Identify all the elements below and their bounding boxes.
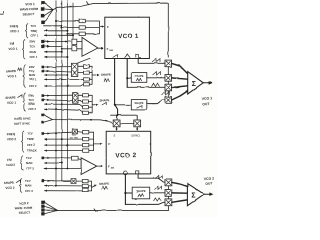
wire sync VCA link [120,122,134,124]
svg-text:VCO 2: VCO 2 [5,186,14,190]
wire to resistor R3 [67,33,80,35]
svg-text:VCO 2: VCO 2 [204,176,215,181]
wire bus 2 (vertical CV bus) [61,1,63,181]
svg-text:VCO 1: VCO 1 [10,29,20,33]
pin F VCO1 [107,25,109,29]
svg-text:TCV: TCV [25,179,31,183]
wire CFF2 row [45,84,84,87]
resistor R17 [83,149,89,152]
pin F VCO2 [108,142,110,146]
wire [77,131,82,134]
wire square to VCA1 [138,59,165,64]
VCA X9 hard sync [113,120,120,127]
label FREQ VCO 2 [7,132,17,141]
wire TIME row [44,30,68,32]
wire shape join VCO2 [88,181,97,191]
label CFF 2 [29,107,37,111]
label saw wave VCO2 [155,175,162,178]
wire [78,94,83,96]
wire CFF1 row [44,34,74,36]
node SHAPE VCO2 [99,182,109,190]
resistor R20 [82,184,88,187]
svg-text:VCO 1: VCO 1 [7,101,16,105]
wire ENV row [42,94,73,97]
brace FREQ VCO2 [22,131,25,152]
svg-text:TCV: TCV [31,24,37,28]
wire bus 3 (vertical CV bus) [66,1,68,169]
resistor R1 [79,19,85,22]
svg-text:VCO 1: VCO 1 [202,96,213,101]
resistor R19 [82,179,88,182]
svg-text:SHAPE: SHAPE [99,182,109,186]
svg-text:SELECT: SELECT [22,12,34,16]
wire VCO2 select line to VCA chain [58,206,169,212]
resistor R15 [83,137,89,140]
svg-text:FREQ: FREQ [10,24,19,28]
svg-text:TCV: TCV [29,98,35,102]
wire VCA chain links VCO2 [167,186,169,199]
resistor R18 [72,156,79,160]
svg-text:SHAPE: SHAPE [4,181,14,185]
svg-text:FM: FM [10,42,15,46]
label tri wave [152,83,160,86]
svg-text:VCO 1: VCO 1 [8,47,17,51]
resistor R7 [84,71,90,74]
wire MAN row [45,162,63,164]
wire MAN row [45,103,83,107]
resistor R4 [72,39,77,44]
attenuator X14 [72,129,77,134]
wire [78,159,81,160]
svg-text:ENV: ENV [29,65,35,69]
VCA X12 [165,179,172,186]
label saw wave [152,59,160,62]
svg-text:SHAPE: SHAPE [6,69,16,73]
svg-text:Σ: Σ [191,192,195,199]
svg-text:VCO 1: VCO 1 [25,2,35,6]
svg-text:VCO 1: VCO 1 [118,33,139,40]
label VCO 1 WAVE FORM SELECT [20,2,39,16]
wire to resistor R1 [55,20,79,22]
pin FdM VCO1 [107,47,113,52]
svg-text:SHAPE: SHAPE [135,101,144,105]
svg-text:CFF 2: CFF 2 [29,84,37,88]
wire mixer out to FdM pin [98,48,104,50]
wire into sync VCA R [136,115,138,120]
op-amp summer U3 VCO1 output [188,72,204,94]
label CFF 1 [30,55,38,59]
wire TCV row [42,70,72,73]
label tri wave VCO2 [154,198,162,201]
resistor R5 [72,46,77,51]
svg-text:CFF 2: CFF 2 [27,143,35,147]
pin triangle VCO1 [125,54,130,57]
resistor R10 [83,94,89,97]
wire bus 4 (vertical CV bus) [72,3,74,40]
wire VCO1 select line to VCA chain [53,3,168,57]
svg-text:CFF 1: CFF 1 [30,55,38,59]
svg-text:TIME: TIME [27,137,34,141]
label CFF 1 [29,77,37,81]
wire sync feed split [111,114,138,116]
resistor R16 [83,143,89,146]
resistor R8 [84,78,90,81]
svg-text:F: F [107,25,109,29]
wire [78,72,84,74]
label MAN [29,73,35,77]
VCA X10 soft sync [134,120,141,127]
brace FM VCO1 [23,40,26,60]
wire into sync VCA L [116,115,118,120]
wire saw down VCO1 [114,59,116,105]
wire mixer links [77,42,82,49]
svg-text:ΔM: ΔM [111,167,115,169]
wire CFF2 row [45,108,83,113]
VCA X7 [165,84,172,91]
wire square to VCA VCO2 [138,175,165,183]
VCA X11 [165,190,172,197]
node junction on select line [87,2,89,5]
wire TCV row [42,157,72,160]
svg-text:(SYNC): (SYNC) [132,134,140,137]
resistor R6 [84,65,90,68]
label TCV [25,179,31,183]
wire select converge VCO1 [44,3,53,23]
label VCO 2 OUT [204,176,215,185]
shaper SHAPE3 VCO2 [132,187,150,199]
svg-text:CFF 3: CFF 3 [26,166,34,170]
brace FM VCO2 [21,156,24,171]
label CFF 1 [31,33,39,37]
wire diagonal near bus4 [78,58,90,63]
svg-text:CFF 3: CFF 3 [25,189,33,193]
VCA X5 [165,60,172,67]
svg-text:TRACK: TRACK [27,148,37,152]
label HARD SYNC [14,116,31,120]
wire TCV row [42,132,73,135]
label shaped wave [155,186,162,189]
node SHAPE-saw VCO1 [99,98,109,105]
svg-text:VCO 2: VCO 2 [7,137,17,141]
label MAN [29,102,35,106]
node SHAPE-A VCO1 [101,72,111,81]
svg-text:FM: FM [7,158,12,162]
label VCO 1 OUT [202,96,213,106]
node sync inputs [41,114,44,124]
label TCV [31,24,37,28]
attenuator X4 [71,179,76,184]
svg-text:MAN: MAN [30,50,36,54]
wire MAN row [45,51,63,53]
wire tri to shaper1 [127,77,131,79]
wire stub left edge [0,11,4,14]
svg-text:TCV: TCV [26,156,32,160]
svg-text:TIME: TIME [31,29,38,33]
label SOFT SYNC [14,121,30,125]
label FREQ VCO 1 [10,24,20,33]
pin square VCO1 [136,55,141,58]
VCA X13 [165,199,172,206]
svg-text:FREQ: FREQ [7,132,16,136]
label TIME [31,29,38,33]
label TCV [29,98,35,102]
wire saw to shaper3 [125,192,132,194]
label TCV [27,132,33,136]
svg-text:F: F [108,164,110,168]
wire CFF2 row [45,144,83,146]
wire resistor join to VCO1 F pin [85,21,104,34]
wire CFF3 row [45,190,83,192]
wire CFF1 row [45,78,84,80]
wire mixer out to VCO2 FdM pin [97,165,104,167]
svg-text:VCO 2: VCO 2 [115,152,136,159]
wire TCV row [42,99,73,102]
attenuator X1 dual VCA [71,63,77,76]
svg-text:TCV: TCV [30,45,36,49]
label TCV [26,156,32,160]
shaper SHAPE2 VCO1 [131,100,147,110]
label FM VCO 1 [8,42,17,51]
resistor R9 [84,83,90,86]
node waveform select inputs VCO2 [41,201,44,216]
svg-text:OUT: OUT [202,102,210,107]
label VCO 2 WAVE FORM SELECT [15,201,33,215]
wire TCV row [41,45,62,48]
wire ENV row [42,66,72,69]
label CFF 2 [29,84,37,88]
wire triangle down [126,59,128,88]
svg-text:SHAPE: SHAPE [135,74,144,78]
label MAN [26,161,32,165]
pin soft sync VCO2 [132,134,140,137]
wire summer1 output [203,81,212,85]
label shaped saw wave [162,92,170,95]
wire saw to shaper2 [114,104,132,115]
svg-text:ΔM: ΔM [109,50,113,52]
label CFF 3 [25,189,33,193]
node waveform select inputs VCO1 [41,1,45,24]
wire shape-saw join [88,95,98,113]
brace FREQ VCO1 [26,24,29,39]
resistor R14 [83,131,89,134]
wire to resistor R2 [61,27,79,29]
svg-text:F: F [107,47,109,51]
svg-text:SHAPE: SHAPE [99,98,109,102]
wire select converge VCO2 [44,202,57,214]
svg-text:ENV: ENV [30,40,36,44]
shaper SHAPE1 VCO1 [131,73,147,83]
svg-text:MAN: MAN [29,73,35,77]
label TIME [27,137,34,141]
VCO1 box U1 [105,17,150,58]
label CFF 2 [27,143,35,147]
label ENV [29,94,35,98]
wire saw down VCO2 [124,175,126,205]
label CFF 3 [26,166,34,170]
brace SHAPE-A VCO1 [23,65,26,88]
label no-track [70,135,79,139]
label FM VCO 2 [6,158,15,167]
wire VCA outs to summer2 [172,182,188,202]
label SHAPE A VCO 1 [6,68,22,78]
wire summer2 output [204,192,213,196]
brace SHAPE VCO2 [20,178,23,192]
svg-text:SHAPE: SHAPE [5,96,15,100]
pin hard sync VCO2 [114,133,116,137]
label ENV [29,65,35,69]
resistor R12 [83,106,89,109]
svg-text:ENV: ENV [29,94,35,98]
svg-text:WAVE FORM: WAVE FORM [20,7,39,12]
label ENV [30,40,36,44]
svg-text:HARD SYNC: HARD SYNC [14,116,31,120]
wire bus2 bend to X4 [62,180,71,183]
wire resistor join to VCO2 F pin [89,132,103,150]
wire CFF3 row [45,167,82,169]
wire MAN row [45,74,69,76]
wire CFF1 row [45,56,69,58]
svg-text:TCV: TCV [27,132,33,136]
svg-text:Σ: Σ [192,81,196,88]
wire shaper2 to VCA4 [147,100,165,104]
wire TCV row [42,180,71,183]
wire sync converge [44,115,52,122]
VCO2 box U2 [106,131,151,174]
wire shaper1 to VCA2 [147,77,165,79]
svg-text:CFF 1: CFF 1 [31,33,39,37]
wire saw bottom to VCA [125,202,164,204]
svg-text:OUT: OUT [205,181,212,185]
resistor R21 [82,188,88,191]
resistor R3 [79,32,85,35]
wire shape-A join [89,66,99,84]
label VCO 1 [118,33,139,40]
svg-text:MAN: MAN [25,184,31,188]
resistor R2 [79,26,85,29]
resistor R13 [83,111,89,114]
attenuator X2 dual VCA [73,93,78,104]
brace SHAPE-saw VCO1 [23,93,26,112]
pin sawtooth VCO1 [113,55,118,58]
VCA X8 [165,97,172,104]
wire TIME row [45,138,83,140]
op-amp FM mixer VCO2 [81,158,97,175]
svg-text:F: F [108,142,110,146]
pin sawtooth VCO2 [124,171,128,175]
svg-text:S: S [114,133,116,137]
svg-text:VCO 2: VCO 2 [6,163,15,167]
wire sync VCA outs to VCO2 [116,127,139,131]
label MAN [25,184,31,188]
svg-text:SHAPE: SHAPE [101,72,111,76]
resistor R11 [83,100,89,103]
label VCO 2 [115,152,136,159]
label TRACK [27,148,37,152]
label TCV [29,69,35,73]
label MAN [30,50,36,54]
op-amp summer U4 VCO2 output [187,183,204,205]
wire ENV row [41,40,71,43]
svg-text:CFF 2: CFF 2 [29,107,37,111]
wire [78,100,83,102]
wire MAN row [45,185,83,187]
svg-text:VCO 1: VCO 1 [7,74,16,78]
svg-text:MAN: MAN [29,102,35,106]
label SHAPE saw VCO 1 [5,95,22,105]
svg-text:TCV: TCV [29,69,35,73]
pin square VCO2 [136,171,141,174]
label SHAPE saw VCO 2 [4,180,21,190]
wire VCA outs to summer1 [172,63,188,100]
svg-text:SELECT: SELECT [19,210,31,214]
op-amp FM mixer VCO1 [82,37,98,56]
svg-text:WAVE FORM: WAVE FORM [15,206,33,211]
wire TRACK row [45,150,83,152]
svg-text:VCO 2: VCO 2 [19,201,29,205]
wire TCV row [44,25,63,27]
wire [76,180,82,182]
wire [78,65,84,67]
wire mixer input 1 [61,48,72,50]
svg-text:CFF 1: CFF 1 [29,77,37,81]
svg-text:SOFT SYNC: SOFT SYNC [14,121,30,125]
svg-text:SHAPE: SHAPE [136,189,145,193]
wire VCA chain links VCO1 [167,67,169,97]
wire bus 1 (vertical CV bus) [55,1,57,186]
VCA X6 [165,75,172,82]
wire sync select line [52,119,112,123]
svg-text:MAN: MAN [26,161,32,165]
label tri-saw wave [153,72,161,75]
pin FdM VCO2 [108,164,114,169]
wire tri to VCA3 [127,86,165,88]
wire shaper3 to VCA [150,192,165,194]
label TCV [30,45,36,49]
